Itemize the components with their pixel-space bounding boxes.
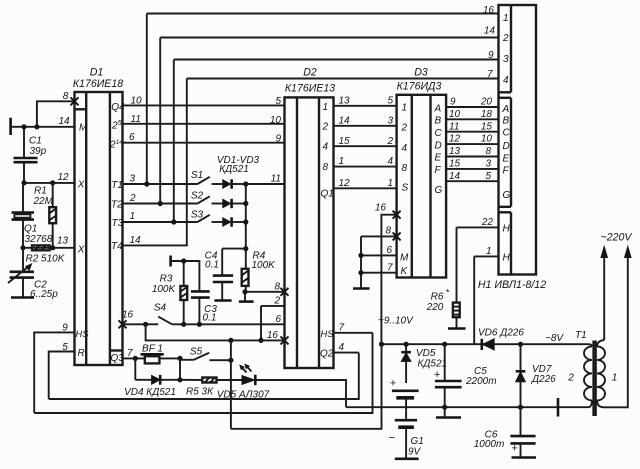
D1 Q3 pin7 wire	[123, 348, 145, 359]
svg-text:D: D	[435, 140, 442, 151]
svg-text:9: 9	[450, 97, 456, 108]
svg-text:6..25p: 6..25p	[30, 289, 58, 300]
svg-text:К176ИД3: К176ИД3	[397, 81, 442, 93]
D2 to D3 wire 1-4	[334, 156, 397, 167]
svg-text:F: F	[435, 165, 442, 176]
svg-text:2: 2	[273, 296, 280, 307]
0V rail	[346, 406, 589, 408]
svg-text:2: 2	[401, 122, 408, 133]
svg-text:R: R	[78, 348, 85, 359]
S5 vertical link	[230, 340, 232, 428]
resistor R6 220	[426, 287, 460, 328]
svg-text:4: 4	[339, 342, 345, 353]
svg-text:8: 8	[485, 146, 491, 157]
svg-text:6: 6	[275, 314, 281, 325]
svg-text:1: 1	[323, 102, 329, 113]
svg-text:К176ИЕ18: К176ИЕ18	[73, 78, 123, 90]
D1 pin 8 wire with X mark	[37, 91, 79, 127]
svg-text:+9..10V: +9..10V	[378, 315, 414, 326]
svg-text:8: 8	[402, 163, 408, 174]
svg-text:M: M	[400, 252, 409, 263]
svg-text:3: 3	[387, 115, 393, 126]
svg-text:A: A	[434, 103, 442, 114]
svg-text:+: +	[511, 443, 517, 455]
svg-text:B: B	[503, 115, 510, 126]
svg-text:D3: D3	[414, 67, 428, 79]
R3/C3 top node with left terminal bar	[171, 256, 201, 267]
D3 internal pin labels	[400, 102, 443, 277]
svg-text:9V: 9V	[408, 446, 422, 457]
svg-text:Q3: Q3	[111, 353, 125, 364]
IC D2 К176ИЕ13 box	[285, 97, 334, 368]
node dots on M wire	[21, 124, 26, 129]
svg-text:4: 4	[387, 156, 393, 167]
H1 heater pin22 wire	[457, 217, 499, 228]
svg-text:8: 8	[385, 225, 391, 236]
svg-text:+: +	[390, 377, 396, 389]
S5 aux wire to +rail riser	[231, 344, 382, 429]
D2 internal pin labels	[320, 102, 334, 359]
svg-text:G: G	[435, 185, 443, 196]
svg-text:КД521: КД521	[219, 164, 249, 175]
diode VD4 КД521 parallel to BF1	[124, 358, 180, 397]
svg-text:1: 1	[387, 178, 393, 189]
capacitor C6 1000m	[474, 407, 536, 457]
svg-text:H: H	[503, 253, 511, 264]
svg-text:20: 20	[480, 97, 493, 108]
IC D3 К176ИД3 box	[397, 95, 447, 278]
svg-text:G: G	[503, 190, 511, 201]
H1 heater pin1 wire	[474, 246, 498, 257]
D1 pin 12 X wire	[24, 172, 75, 183]
battery G1 9V	[388, 377, 424, 458]
svg-text:T1: T1	[575, 330, 587, 341]
D1 T1 pin3 wire	[123, 174, 198, 185]
D1 pin 14 M wire with left terminal bar	[11, 116, 75, 135]
svg-text:10: 10	[131, 95, 143, 106]
svg-text:Д226: Д226	[531, 374, 556, 385]
svg-text:S3: S3	[191, 210, 204, 221]
resistor R2 510K	[26, 245, 66, 264]
riser T2 to top wire 2	[159, 38, 161, 204]
svg-text:R2 510K: R2 510K	[26, 253, 66, 264]
svg-text:16: 16	[122, 310, 134, 321]
diode VD5 КД521 (backup)	[401, 344, 447, 383]
svg-text:1: 1	[612, 372, 618, 383]
D1 Q4 pin10 wire to D2 pin5	[123, 95, 285, 107]
diode VD6 Д226	[478, 327, 524, 350]
S4 wire to D2 pin6	[172, 314, 285, 325]
svg-text:HS: HS	[321, 329, 335, 339]
svg-text:5: 5	[387, 95, 393, 106]
bottom rail HS (D1 pin9 to D2 pin7)	[34, 333, 372, 413]
svg-text:7: 7	[387, 262, 393, 273]
resistor R5 3K	[180, 378, 242, 398]
D1 2^14 pin6 wire to D2 pin9	[123, 132, 285, 144]
resistor R1 22M	[33, 183, 57, 248]
chassis stub under R4	[239, 292, 254, 302]
D1 pin16 wire with X and switch S4	[119, 310, 159, 329]
D2 to D3 wire 13-5	[334, 95, 397, 106]
svg-text:9: 9	[275, 133, 281, 144]
top wire 1 to H1 pin16	[147, 5, 499, 16]
D1 pin 13 X wire	[23, 236, 75, 248]
switch S1	[191, 170, 223, 184]
svg-text:14: 14	[339, 115, 351, 126]
svg-text:X: X	[77, 180, 85, 191]
svg-text:5: 5	[485, 171, 491, 182]
transformer T1	[567, 330, 617, 416]
svg-text:100K: 100K	[152, 284, 177, 295]
svg-text:9: 9	[488, 50, 494, 61]
resistor R4 100K	[242, 249, 276, 292]
D3 M pin6 wire	[361, 245, 397, 256]
top wire 4 to H1 pin7	[187, 69, 499, 80]
D3 pin8 X wire	[361, 225, 401, 240]
svg-text:Н1 ИВЛ1-8/12: Н1 ИВЛ1-8/12	[478, 279, 546, 291]
svg-text:S: S	[402, 183, 409, 194]
svg-text:~8V: ~8V	[545, 333, 564, 344]
svg-text:0.1: 0.1	[203, 313, 217, 324]
svg-text:+: +	[434, 369, 440, 381]
D2 to D3 wire 14-3	[334, 115, 397, 126]
svg-text:B: B	[435, 116, 442, 127]
D2 to D3 wire 15-2	[334, 136, 397, 147]
D1 T2 pin2 wire	[123, 193, 198, 204]
svg-text:3: 3	[485, 159, 491, 170]
IC D1 К176ИЕ18 box	[75, 92, 123, 365]
svg-text:1: 1	[402, 102, 408, 113]
svg-text:13: 13	[449, 146, 461, 157]
svg-text:H: H	[503, 224, 511, 235]
svg-text:220: 220	[426, 302, 444, 313]
svg-text:D: D	[503, 141, 510, 152]
D3 to H1 segment wire C	[446, 121, 498, 132]
svg-text:16: 16	[375, 203, 387, 214]
svg-text:T1: T1	[111, 180, 123, 191]
svg-text:15: 15	[339, 136, 351, 147]
svg-text:VD4 КД521: VD4 КД521	[124, 387, 176, 398]
svg-text:6: 6	[129, 132, 135, 143]
quartz crystal Q1 32768	[12, 183, 53, 248]
svg-text:2200m: 2200m	[465, 376, 497, 387]
D3 to H1 segment wire E	[446, 146, 498, 157]
svg-text:3: 3	[503, 54, 509, 65]
svg-text:10: 10	[449, 109, 461, 120]
svg-text:2: 2	[129, 193, 136, 204]
svg-text:13: 13	[339, 95, 351, 106]
D3 to H1 segment wire A	[446, 97, 498, 108]
riser pin1 to +rail	[473, 256, 475, 344]
svg-text:R6: R6	[431, 291, 444, 302]
svg-text:0.1: 0.1	[205, 259, 219, 270]
svg-text:13: 13	[57, 236, 69, 247]
capacitor C4 0.1	[205, 249, 233, 301]
LED VD5 АЛ307	[217, 364, 270, 400]
svg-text:C: C	[435, 128, 443, 139]
D1 pin 5 R wire to bottom rail	[49, 342, 75, 399]
svg-text:X: X	[77, 245, 85, 256]
D1 T3 pin1 wire	[123, 211, 198, 222]
diode VD2	[223, 199, 246, 208]
svg-text:1: 1	[339, 156, 345, 167]
svg-text:VD5 АЛ307: VD5 АЛ307	[217, 390, 270, 401]
svg-text:12: 12	[57, 172, 69, 183]
svg-text:10: 10	[481, 134, 493, 145]
svg-text:К176ИЕ13: К176ИЕ13	[285, 83, 335, 95]
svg-text:F: F	[503, 166, 510, 177]
svg-text:39p: 39p	[30, 146, 47, 157]
svg-text:18: 18	[481, 109, 493, 120]
svg-text:D1: D1	[90, 67, 104, 79]
svg-text:S2: S2	[191, 191, 204, 202]
svg-text:12: 12	[339, 178, 351, 189]
svg-text:C: C	[503, 128, 511, 139]
svg-text:S4: S4	[154, 303, 167, 314]
svg-text:22: 22	[481, 217, 494, 228]
D2 to D3 wire 12-1	[334, 178, 397, 189]
D1 internal pin labels	[76, 102, 125, 364]
svg-text:T2: T2	[111, 200, 123, 211]
LED wire to 0V rail	[255, 380, 346, 407]
top wire 3 to H1 pin9	[174, 50, 499, 61]
svg-text:A: A	[502, 104, 510, 115]
riser pin22 to R6	[456, 227, 458, 302]
svg-text:КД521: КД521	[418, 358, 448, 369]
D2 pin8 X mark	[281, 288, 289, 296]
svg-text:~220V: ~220V	[601, 231, 633, 243]
svg-text:BF 1: BF 1	[142, 343, 163, 354]
svg-text:T3: T3	[112, 218, 124, 229]
svg-text:7: 7	[127, 348, 133, 359]
D2 pin2 U-link wire	[261, 296, 285, 341]
svg-text:S5: S5	[190, 346, 203, 357]
chassis stub under C4	[214, 299, 231, 302]
svg-text:8: 8	[274, 281, 280, 292]
diode output junction vertical	[245, 184, 247, 249]
svg-text:14: 14	[130, 235, 142, 246]
svg-text:32768: 32768	[25, 234, 53, 245]
bottom rail R (D1 pin5 to D2 pin4)	[49, 353, 359, 399]
svg-text:E: E	[503, 153, 510, 164]
mains wire 1 with arrow	[601, 247, 607, 341]
svg-text:4: 4	[323, 142, 329, 153]
buzzer BF1	[141, 343, 181, 363]
svg-text:7: 7	[339, 322, 345, 333]
D3 to H1 segment wire G	[446, 171, 498, 182]
svg-text:12: 12	[449, 134, 461, 145]
D2 HS pin7 wire	[334, 322, 373, 333]
svg-text:10: 10	[270, 115, 282, 126]
top wire 2 to H1 pin14	[160, 26, 498, 38]
D2 Q2 pin4 wire	[334, 342, 359, 353]
chassis stub under C5	[436, 407, 461, 417]
svg-text:R1: R1	[34, 186, 47, 197]
chassis stub under R6	[448, 327, 466, 330]
svg-text:100K: 100K	[252, 260, 277, 271]
D3 to H1 segment wire B	[446, 109, 498, 120]
svg-text:22M: 22M	[33, 196, 54, 207]
D3 to H1 segment wire F	[446, 159, 498, 170]
switch S3	[191, 210, 223, 223]
svg-text:9: 9	[62, 322, 68, 333]
svg-text:3: 3	[130, 174, 136, 185]
svg-text:7: 7	[487, 69, 493, 80]
H1 internal grid pin labels	[502, 13, 509, 86]
svg-text:Q1: Q1	[321, 189, 334, 200]
svg-text:16: 16	[267, 330, 279, 341]
svg-text:15: 15	[481, 121, 493, 132]
D1 2^5 pin11 wire to D2 pin10	[123, 114, 285, 126]
svg-text:HS: HS	[76, 329, 90, 339]
D3 pin16 X wire riser to +rail	[375, 203, 401, 345]
svg-text:15: 15	[449, 159, 461, 170]
svg-text:D2: D2	[303, 67, 317, 79]
capacitor C1 39p	[14, 127, 47, 183]
+9..10V rail	[382, 343, 590, 345]
node wire C4/R4	[222, 248, 246, 250]
capacitor C5 2200m	[434, 344, 497, 407]
diode VD3	[223, 217, 246, 226]
svg-text:T4: T4	[111, 241, 123, 252]
svg-text:M: M	[79, 123, 88, 134]
svg-text:2: 2	[567, 372, 574, 383]
D3 K pin7 wire	[361, 262, 397, 273]
VFD H1 ИВЛ1-8/12 box	[499, 5, 537, 275]
svg-text:14: 14	[484, 26, 496, 37]
svg-text:–: –	[388, 431, 395, 443]
svg-text:VD6 Д226: VD6 Д226	[478, 327, 524, 338]
trimmer capacitor C2 6..25p	[8, 248, 58, 300]
riser T3 to top wire 3	[173, 60, 175, 223]
switch S2	[191, 191, 223, 204]
svg-text:2: 2	[322, 121, 329, 132]
wire R4 to D2 pin8 with X	[245, 281, 285, 292]
svg-text:5: 5	[275, 96, 281, 107]
svg-text:14: 14	[58, 116, 70, 127]
svg-text:8: 8	[63, 91, 69, 102]
svg-text:Q4: Q4	[111, 102, 125, 113]
svg-text:11: 11	[449, 121, 459, 132]
switch S5	[180, 346, 231, 360]
svg-text:16: 16	[483, 5, 495, 16]
H1 internal segment labels	[502, 104, 511, 264]
svg-text:1: 1	[503, 13, 509, 24]
D1 T4 pin14 wire with riser to top wire 4	[123, 79, 187, 247]
M/K bracket vertical to ground	[353, 236, 370, 288]
svg-text:1: 1	[130, 211, 136, 222]
svg-text:R5 3К: R5 3К	[186, 386, 214, 397]
switch S4 blade	[154, 303, 172, 325]
chassis stub under C2	[11, 296, 34, 299]
Vdd wire to D2 pin16 with X	[146, 324, 289, 344]
riser T1 to top wire 1	[146, 14, 148, 185]
wire to D2 pin11	[246, 174, 285, 185]
diode VD7 Д226	[516, 344, 556, 407]
svg-text:S1: S1	[191, 170, 203, 181]
svg-text:2: 2	[502, 33, 509, 44]
mains wire 2 with arrow	[604, 247, 631, 408]
svg-text:4: 4	[402, 143, 408, 154]
svg-text:5: 5	[62, 342, 68, 353]
diode VD1	[223, 179, 246, 188]
svg-text:E: E	[435, 153, 442, 164]
chassis bar on 0V rail	[557, 398, 560, 417]
svg-text:14: 14	[449, 171, 461, 182]
svg-text:1000m: 1000m	[474, 439, 505, 450]
D1 pin 9 HS wire to bottom rail	[34, 322, 74, 413]
svg-text:6: 6	[386, 245, 392, 256]
svg-text:Q2: Q2	[320, 348, 334, 359]
svg-text:11: 11	[131, 114, 141, 125]
capacitor C3 0.1	[191, 261, 217, 324]
svg-text:4: 4	[503, 75, 509, 86]
D3 to H1 segment wire D	[446, 134, 498, 145]
svg-text:1: 1	[486, 246, 492, 257]
svg-text:8: 8	[323, 162, 329, 173]
resistor R3 100K	[152, 261, 187, 324]
svg-text:2: 2	[386, 136, 393, 147]
svg-text:*: *	[446, 287, 450, 297]
svg-text:C1: C1	[29, 136, 42, 147]
svg-text:11: 11	[271, 174, 281, 185]
